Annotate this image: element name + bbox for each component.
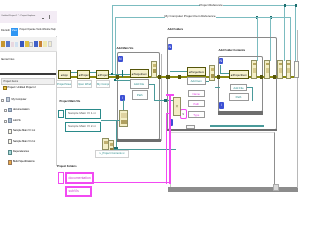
junction dots on top wires	[284, 4, 286, 7]
path array index box	[58, 110, 65, 119]
tree row: Build Specifications	[8, 160, 13, 165]
teal junction dot	[114, 147, 119, 151]
window bottom bar	[168, 187, 298, 192]
wire: Project Reference right drop 1	[284, 5, 285, 61]
bottom-right big rectangle (empty panel)	[170, 132, 275, 188]
L_Project Contents subVI icon 1	[102, 138, 109, 150]
loop A iteration terminal i	[120, 95, 125, 102]
subVI icon in loop A bottom-left	[119, 110, 129, 127]
wire junction	[178, 75, 181, 79]
teal elbow from U6 Add File row	[247, 87, 252, 88]
tree row: subVIs	[4, 120, 7, 123]
label: Add Folders	[168, 28, 184, 31]
label: Project Folders	[57, 165, 77, 168]
label: Project Main VIs	[60, 100, 81, 103]
invoke node U2: Project	[77, 70, 90, 79]
minimize	[42, 18, 45, 19]
dark teal drop inside loop A	[122, 70, 124, 77]
teal wire from Path row down to subVI	[123, 100, 124, 110]
thick separator	[0, 73, 56, 75]
invoke node U1: App property node	[58, 70, 71, 79]
wire: right drop 1	[257, 17, 258, 61]
tabs	[1, 57, 8, 61]
teal stub into subVI	[117, 120, 120, 122]
invoke node U5: TargetItem (inside loop B)	[187, 67, 206, 76]
title bar	[0, 11, 57, 23]
window right edge	[297, 30, 298, 188]
loop A count terminal N	[118, 56, 123, 63]
tree row: My Computer	[1, 99, 4, 102]
caption: ProjectView	[56, 80, 72, 88]
teal wire y=123 inside loop B	[210, 125, 264, 127]
wire tunnel at loop C right	[260, 75, 264, 79]
wire: right drop 2	[270, 17, 271, 61]
teal stub from U5 Add Item row	[206, 81, 210, 82]
U4 row Path	[132, 90, 149, 100]
label: Add Folder Contents	[219, 49, 246, 52]
teal input wire to U5	[170, 71, 187, 72]
caption: Open Window	[77, 80, 93, 88]
label: My Computer Project Item Reference	[165, 14, 216, 19]
loop B iteration terminal i	[169, 119, 173, 126]
wire: Project Reference (top teal horizontal)	[112, 5, 296, 6]
toolbar	[0, 37, 57, 52]
teal wire running right at y=149	[114, 149, 176, 151]
close	[49, 15, 51, 20]
header: Project Items	[1, 78, 55, 85]
loop A right shadow	[161, 54, 162, 141]
resize grip	[273, 184, 279, 191]
U6 row Path	[229, 93, 249, 101]
menu bar	[0, 23, 57, 37]
tree row: documentation	[4, 109, 7, 112]
pink wire horizontal bottom from Project Folders array	[94, 182, 170, 184]
View menu highlighted	[11, 28, 19, 36]
invoke node U3: Project	[96, 70, 109, 79]
tall VI icon inside loop A	[151, 61, 157, 78]
wire: Project Reference right drop 2	[295, 5, 296, 61]
loop C count terminal N	[219, 58, 224, 65]
teal elbow from Add File row to path junction	[149, 84, 155, 85]
small VI icon between U5 and loop C	[209, 65, 216, 81]
wire tunnel at loop B right	[273, 75, 277, 79]
wire tunnel at loop A left	[116, 75, 120, 79]
string array element 2: subVIs	[65, 186, 93, 197]
teal wire vertical down	[116, 120, 118, 149]
pink wire vertical 1	[166, 113, 168, 184]
label: Project Reference	[200, 3, 223, 7]
wire tunnel at loop A right	[158, 75, 162, 79]
label: Add Main Vis	[117, 47, 134, 50]
caption: My Computer	[96, 80, 110, 88]
teal refnum wire into loop A lower	[115, 80, 131, 81]
U5 row Name	[188, 90, 205, 98]
wire tunnel at loop B left	[166, 75, 170, 79]
wire: right drop 3	[290, 17, 291, 61]
caption: L_Project Contents.vi	[95, 150, 129, 158]
U4 row Add File	[130, 79, 149, 89]
pink rounded conversion box	[180, 109, 188, 120]
small terminal box below U5	[186, 125, 195, 130]
U5 row Type	[188, 111, 205, 119]
teal wire from path array going right	[101, 120, 117, 122]
wire: left vertical drop	[115, 17, 116, 80]
pink wire vertical 2	[169, 94, 171, 184]
main error wire (olive)	[66, 76, 298, 78]
string array index box	[58, 172, 65, 184]
wire tunnel at loop C left	[217, 75, 221, 79]
tree row: Project	[3, 86, 7, 91]
right icon row: close reference VIs	[251, 60, 257, 79]
teal input wire to U6	[220, 73, 229, 74]
invoke node U4: TargetItem (inside loop A)	[130, 69, 149, 79]
string array element 1: documentation	[65, 172, 95, 184]
wire: Project Reference left vertical drop	[112, 5, 113, 74]
for-loop C: Add Folder Contents	[218, 56, 263, 112]
tree row: Sample Main VI 1.vi	[8, 129, 13, 134]
invoke node U6: ProjectItem (inside loop C)	[229, 70, 249, 79]
for-loop A: Add Main Vis	[117, 52, 160, 140]
junction dot v2/refnum line	[114, 79, 117, 82]
junction dot v1/refnum line	[111, 73, 114, 76]
tree row: Sample Main VI 2.vi	[8, 139, 13, 144]
loop B count terminal N	[168, 44, 173, 51]
wire: My Computer Project Item Reference (second teal horizontal)	[115, 17, 292, 18]
path array element 1	[65, 109, 101, 119]
U5 row Add Item	[187, 77, 206, 85]
teal stub left of Add File	[215, 87, 221, 88]
teal junction dot 2	[164, 99, 168, 103]
L_Project Contents subVI icon 2	[108, 140, 115, 153]
pink wire connector at y=113	[166, 113, 170, 115]
teal refnum segment node1-node2	[71, 72, 78, 74]
path array element 2	[65, 122, 101, 132]
tree row: Dependencies	[8, 150, 13, 155]
teal wire y=100 between loops	[154, 100, 174, 102]
pink wire horizontal into icon	[166, 94, 174, 96]
teal refnum segment node2-node3	[90, 72, 97, 74]
loop C iteration terminal i	[219, 102, 224, 109]
teal refnum wire into loop A upper	[109, 74, 130, 75]
tall cream icon in pink cluster	[173, 97, 181, 116]
U6 row Add File	[230, 84, 247, 92]
U5 row Path	[188, 100, 205, 108]
for-loop B: Add Folders	[167, 37, 277, 130]
